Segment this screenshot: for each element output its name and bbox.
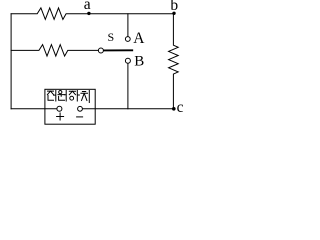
svg-text:B: B xyxy=(134,54,144,70)
svg-text:A: A xyxy=(133,30,145,47)
svg-text:c: c xyxy=(177,99,184,116)
svg-text:b: b xyxy=(170,0,178,14)
svg-text:S: S xyxy=(107,30,114,44)
svg-text:a: a xyxy=(84,0,91,13)
